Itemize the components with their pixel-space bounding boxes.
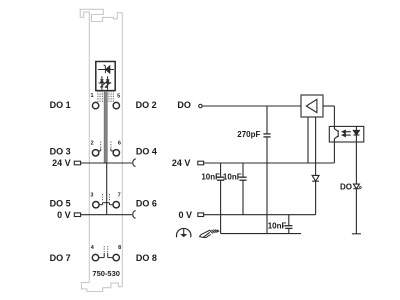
svg-text:DO 1: DO 1 bbox=[50, 100, 71, 110]
svg-text:DO 6: DO 6 bbox=[136, 199, 157, 209]
svg-text:6: 6 bbox=[118, 141, 121, 147]
svg-text:DO: DO bbox=[177, 100, 191, 110]
svg-text:270pF: 270pF bbox=[237, 130, 260, 139]
svg-text:DO: DO bbox=[340, 182, 352, 191]
svg-text:DO 2: DO 2 bbox=[136, 100, 157, 110]
svg-text:DO 7: DO 7 bbox=[50, 253, 71, 263]
svg-text:10nF: 10nF bbox=[201, 173, 220, 182]
svg-text:DO 3: DO 3 bbox=[50, 146, 71, 156]
svg-text:24 V: 24 V bbox=[52, 158, 71, 168]
svg-text:24 V: 24 V bbox=[172, 158, 191, 168]
svg-text:0 V: 0 V bbox=[57, 210, 71, 220]
svg-text:7: 7 bbox=[118, 193, 121, 199]
svg-text:0 V: 0 V bbox=[178, 210, 192, 220]
svg-text:3: 3 bbox=[90, 193, 93, 199]
svg-text:750-530: 750-530 bbox=[92, 269, 120, 278]
svg-text:2: 2 bbox=[91, 141, 94, 147]
svg-text:1: 1 bbox=[90, 93, 93, 99]
svg-text:DO 4: DO 4 bbox=[136, 146, 157, 156]
svg-text:10nF: 10nF bbox=[223, 173, 242, 182]
svg-text:10nF: 10nF bbox=[268, 221, 287, 230]
svg-text:8: 8 bbox=[118, 245, 121, 251]
svg-text:5: 5 bbox=[117, 93, 120, 99]
svg-text:4: 4 bbox=[91, 245, 95, 251]
svg-text:DO 8: DO 8 bbox=[136, 253, 157, 263]
svg-text:DO 5: DO 5 bbox=[50, 199, 71, 209]
